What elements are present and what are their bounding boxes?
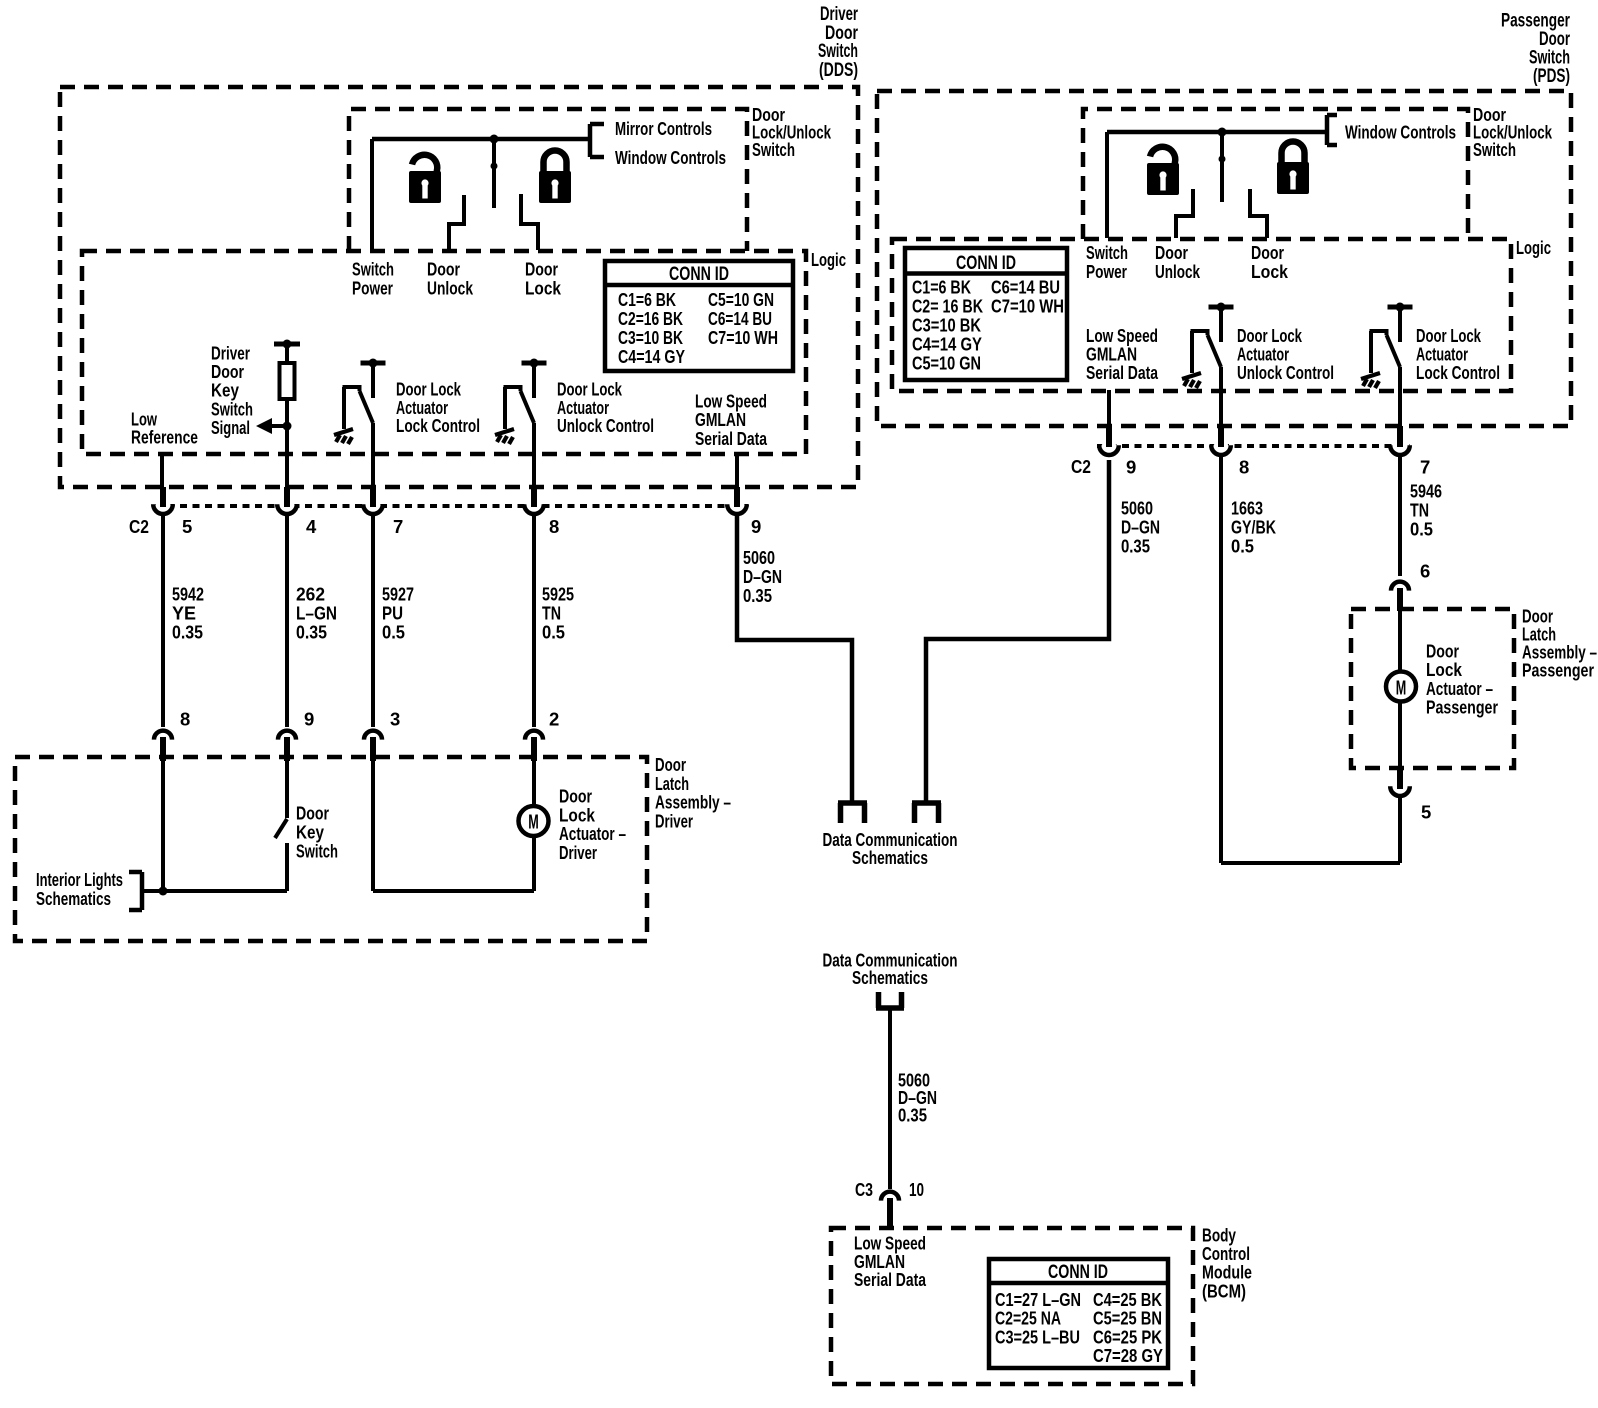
wire passenger unlock control above C2: [1219, 367, 1223, 442]
svg-text:3: 3: [390, 709, 400, 730]
label Door Latch Assembly - Driver: [655, 754, 731, 831]
connector terminal pin 9 (door latch driver): [280, 730, 294, 744]
svg-text:7: 7: [1420, 457, 1430, 478]
wire latch unlock control: [532, 760, 536, 806]
wire 5060 D-GN to BCM: [888, 1009, 892, 1189]
svg-text:9: 9: [1126, 457, 1136, 478]
svg-text:0.35: 0.35: [898, 1105, 927, 1126]
svg-text:D–GN: D–GN: [743, 566, 782, 587]
svg-text:5: 5: [1421, 802, 1431, 823]
wire bottom link to latch passenger: [1221, 861, 1400, 865]
label Low Speed GMLAN Serial Data (passenger): [1086, 325, 1159, 383]
svg-text:0.35: 0.35: [172, 622, 203, 643]
svg-text:Logic: Logic: [811, 249, 846, 270]
svg-text:Lock: Lock: [1251, 261, 1289, 282]
svg-text:0.35: 0.35: [296, 622, 327, 643]
door key switch (driver): [275, 760, 287, 891]
wire passenger lock control above C2: [1398, 367, 1402, 442]
svg-text:8: 8: [1239, 457, 1249, 478]
harness connector dotted line (passenger C2): [1097, 444, 1410, 448]
connector terminal pin 5 (latch passenger): [1392, 781, 1408, 797]
svg-text:C5=10 GN: C5=10 GN: [912, 353, 981, 374]
svg-text:C3=10 BK: C3=10 BK: [618, 327, 683, 348]
svg-text:Serial Data: Serial Data: [854, 1269, 927, 1290]
svg-text:Serial Data: Serial Data: [1086, 362, 1159, 383]
wire unlock control (above C2): [532, 423, 536, 502]
svg-text:(BCM): (BCM): [1202, 1280, 1246, 1301]
passenger door lock/unlock switch inner dashed box (bottom shared with logic box): [1083, 109, 1468, 239]
driver logic dashed box: [82, 251, 806, 454]
wire lock control (above C2): [371, 423, 375, 502]
icon unlocked padlock (driver door unlock): [409, 155, 441, 203]
CONN ID table (BCM): [989, 1259, 1168, 1368]
off-page bracket to Mirror/Window Controls (driver): [590, 124, 604, 157]
junction dot on passenger bus: [1218, 128, 1227, 137]
connector terminal pin 5 C2 driver: [155, 499, 171, 515]
wire label 5060 D-GN 0.35 (BCM): [898, 1070, 937, 1126]
off-page bracket to Window Controls (passenger): [1327, 115, 1337, 145]
svg-text:C1=6 BK: C1=6 BK: [618, 289, 676, 310]
svg-text:CONN ID: CONN ID: [669, 264, 729, 285]
svg-text:C6=14 BU: C6=14 BU: [708, 308, 772, 329]
svg-text:(DDS): (DDS): [819, 60, 858, 81]
switch driver door lock actuator lock control: [334, 359, 386, 445]
svg-text:10: 10: [909, 1179, 924, 1200]
connector terminal pin 3 (door latch driver): [366, 730, 380, 744]
label Data Communication Schematics (upper): [823, 829, 958, 868]
svg-text:7: 7: [393, 516, 403, 537]
svg-text:C7=10 WH: C7=10 WH: [991, 296, 1064, 317]
label Door Lock Actuator - Driver: [559, 786, 626, 863]
resistor (driver door key switch pull-up): [280, 363, 295, 399]
wire below motor driver: [532, 836, 536, 891]
svg-text:Unlock Control: Unlock Control: [557, 415, 654, 436]
svg-text:Passenger: Passenger: [1426, 697, 1498, 718]
svg-text:Driver: Driver: [559, 842, 597, 863]
svg-text:M: M: [1396, 678, 1407, 700]
label Switch Power (passenger): [1086, 242, 1128, 282]
wire column x=534 between connectors: [532, 515, 536, 727]
wire label 5942 YE 0.35: [172, 584, 204, 643]
svg-text:C2: C2: [129, 516, 149, 537]
svg-text:0.5: 0.5: [1410, 519, 1433, 540]
driver door switch (DDS) outer dashed box: [60, 87, 858, 487]
wire passenger GMLAN above C2: [1107, 390, 1111, 442]
svg-text:(PDS): (PDS): [1533, 66, 1570, 87]
off-page bracket data communication (passenger side): [912, 803, 941, 823]
label Door Lock Actuator Lock Control (passenger): [1416, 325, 1500, 383]
svg-text:262: 262: [296, 584, 325, 605]
wire low reference (above C2): [160, 453, 164, 502]
svg-text:1663: 1663: [1231, 498, 1263, 519]
svg-text:TN: TN: [542, 603, 561, 624]
svg-text:Schematics: Schematics: [852, 967, 928, 988]
connector terminal pin 4 C2 driver: [279, 499, 295, 515]
connector terminal pin 7 C2 driver: [365, 499, 381, 515]
junction dot latch driver: [159, 887, 168, 896]
signal arrow (driver door key switch signal): [262, 424, 287, 428]
svg-text:C5=10 GN: C5=10 GN: [708, 289, 774, 310]
wire label 262 L-GN 0.35: [296, 584, 337, 643]
svg-text:Lock: Lock: [525, 278, 562, 299]
label Door Lock Actuator Lock Control (driver): [396, 379, 480, 437]
wire latch passenger below motor: [1398, 701, 1402, 780]
svg-text:YE: YE: [172, 603, 196, 624]
wire passenger switch-power bus: [1107, 130, 1327, 135]
wire driver switch-power bus: [372, 137, 590, 142]
label Door Key Switch: [296, 803, 338, 862]
wire latch low reference: [161, 760, 165, 891]
switch passenger door lock actuator lock control: [1361, 303, 1413, 389]
svg-text:4: 4: [306, 516, 317, 537]
svg-text:Signal: Signal: [211, 417, 250, 438]
wire GMLAN (above C2): [735, 453, 739, 502]
wire driver door-unlock contact hook: [449, 195, 464, 250]
wire label 5060 D-GN 0.35 (driver): [743, 547, 782, 606]
off-page bracket to Interior Lights Schematics: [129, 872, 142, 910]
wire label 5925 TN 0.5: [542, 584, 574, 643]
connector terminal C2 passenger x=1221: [1213, 440, 1229, 456]
svg-text:Switch: Switch: [352, 259, 394, 280]
wire passenger door-lock contact hook: [1250, 189, 1267, 238]
svg-text:C2=16 BK: C2=16 BK: [618, 308, 683, 329]
svg-text:Interior Lights: Interior Lights: [36, 869, 123, 890]
svg-text:C3: C3: [855, 1179, 873, 1200]
svg-text:C2= 16 BK: C2= 16 BK: [912, 296, 983, 317]
svg-text:5927: 5927: [382, 584, 414, 605]
door latch assembly driver dashed box: [15, 757, 647, 941]
wire passenger door-unlock contact hook: [1176, 189, 1193, 238]
svg-text:9: 9: [304, 709, 314, 730]
switch passenger door lock actuator unlock control: [1182, 303, 1234, 389]
label Low Speed GMLAN Serial Data (BCM): [854, 1233, 927, 1291]
svg-text:Door: Door: [1155, 242, 1188, 263]
svg-text:9: 9: [751, 516, 761, 537]
svg-text:8: 8: [549, 516, 559, 537]
svg-text:C3=10 BK: C3=10 BK: [912, 315, 982, 336]
wire key switch signal (above C2): [285, 426, 289, 502]
svg-text:Key: Key: [296, 822, 325, 843]
svg-text:5925: 5925: [542, 584, 574, 605]
svg-text:Passenger: Passenger: [1522, 660, 1594, 681]
label Door Lock Actuator Unlock Control (driver): [557, 379, 654, 437]
connector terminal pin 10 (BCM C3): [883, 1191, 897, 1205]
label Passenger Door Switch (PDS): [1501, 10, 1570, 86]
svg-text:Logic: Logic: [1516, 237, 1551, 258]
svg-text:0.5: 0.5: [1231, 536, 1254, 557]
svg-text:C2: C2: [1071, 456, 1091, 477]
svg-text:2: 2: [549, 709, 559, 730]
wire passenger GMLAN to data communication: [926, 460, 1109, 802]
svg-text:0.35: 0.35: [743, 585, 772, 606]
label Door Lock (driver): [525, 259, 562, 299]
svg-text:5060: 5060: [743, 547, 775, 568]
body control module (BCM) dashed box: [831, 1228, 1193, 1384]
svg-text:CONN ID: CONN ID: [1048, 1262, 1108, 1283]
svg-text:CONN ID: CONN ID: [956, 253, 1016, 274]
svg-text:Window Controls: Window Controls: [1345, 122, 1456, 143]
label Driver Door Switch (DDS): [818, 4, 858, 81]
pivot dot driver rocker: [491, 163, 498, 170]
label Door Lock/Unlock Switch (passenger): [1473, 104, 1553, 160]
svg-text:GY/BK: GY/BK: [1231, 517, 1276, 538]
svg-text:C4=14 GY: C4=14 GY: [912, 334, 983, 355]
svg-text:Door: Door: [1251, 242, 1284, 263]
svg-text:6: 6: [1420, 561, 1430, 582]
wire label 1663 GY/BK 0.5: [1231, 498, 1276, 557]
svg-text:0.35: 0.35: [1121, 536, 1150, 557]
wire latch passenger above motor: [1398, 611, 1402, 673]
svg-text:PU: PU: [382, 603, 403, 624]
svg-text:Switch: Switch: [1473, 139, 1516, 160]
svg-text:Unlock Control: Unlock Control: [1237, 362, 1334, 383]
wire driver door-lock contact hook: [521, 194, 538, 250]
label Driver Door Key Switch Signal: [211, 343, 253, 438]
wire passenger rocker common: [1220, 132, 1224, 202]
svg-text:Window Controls: Window Controls: [615, 147, 726, 168]
driver door lock/unlock switch inner dashed box (bottom shared with logic box): [349, 109, 747, 251]
icon locked padlock (passenger door lock): [1277, 142, 1309, 195]
svg-text:Door: Door: [427, 259, 460, 280]
connector terminal pin 6 (latch passenger): [1393, 581, 1407, 595]
label Interior Lights Schematics: [36, 869, 123, 909]
passenger door switch (PDS) outer dashed box: [877, 91, 1571, 426]
passenger logic dashed box: [892, 239, 1511, 391]
label Body Control Module (BCM): [1202, 1225, 1252, 1302]
svg-text:Lock Control: Lock Control: [396, 415, 480, 436]
svg-text:Reference: Reference: [131, 427, 198, 448]
wire 5946 TN down: [1398, 455, 1402, 577]
label Low Reference: [131, 409, 198, 448]
svg-text:C1=6 BK: C1=6 BK: [912, 277, 971, 298]
svg-text:Door: Door: [525, 259, 558, 280]
svg-text:C6=14 BU: C6=14 BU: [991, 277, 1060, 298]
svg-text:C4=14 GY: C4=14 GY: [618, 346, 686, 367]
connector terminal pin 2 (door latch driver): [527, 730, 541, 744]
connector terminal pin 8 (door latch driver): [156, 730, 170, 744]
svg-text:C7=28 GY: C7=28 GY: [1093, 1345, 1164, 1366]
svg-text:D–GN: D–GN: [1121, 517, 1160, 538]
icon unlocked padlock (passenger door unlock): [1147, 147, 1179, 195]
label Door Lock (passenger): [1251, 242, 1289, 282]
label Data Communication Schematics (lower): [823, 950, 958, 989]
wire latch actuator bottom: [373, 889, 534, 893]
svg-text:Serial Data: Serial Data: [695, 428, 768, 449]
svg-text:M: M: [528, 812, 539, 834]
wire column x=287 between connectors: [285, 515, 289, 727]
svg-text:TN: TN: [1410, 500, 1429, 521]
connector terminal pin 8 C2 driver: [526, 499, 542, 515]
wire 1663 GY/BK down: [1219, 455, 1223, 864]
label Door Lock Actuator - Passenger: [1426, 641, 1498, 718]
svg-text:Door: Door: [296, 803, 329, 824]
wire passenger switch power feed: [1105, 132, 1109, 238]
motor M door lock actuator driver: [519, 806, 549, 836]
pivot dot passenger rocker: [1219, 156, 1226, 163]
svg-text:5: 5: [182, 516, 192, 537]
svg-text:Lock Control: Lock Control: [1416, 362, 1500, 383]
svg-text:C7=10 WH: C7=10 WH: [708, 327, 778, 348]
connector terminal C2 passenger x=1400: [1392, 440, 1408, 456]
wire driver rocker common: [492, 139, 496, 208]
wire driver switch power feed: [370, 139, 374, 250]
svg-text:0.5: 0.5: [542, 622, 565, 643]
wire driver GMLAN to data communication: [737, 515, 852, 803]
svg-text:Power: Power: [1086, 261, 1127, 282]
CONN ID table (driver door switch): [605, 261, 793, 371]
door latch assembly passenger dashed box: [1351, 609, 1514, 768]
connector terminal C2 passenger x=1109: [1101, 440, 1117, 456]
wire label 5060 D-GN 0.35 (passenger): [1121, 498, 1160, 557]
label Door Unlock (passenger): [1155, 242, 1201, 282]
label Switch Power (driver): [352, 259, 394, 299]
junction dot on driver bus: [490, 135, 499, 144]
svg-text:0.5: 0.5: [382, 622, 405, 643]
motor M door lock actuator passenger: [1386, 672, 1416, 702]
wire label 5927 PU 0.5: [382, 584, 414, 643]
wire below pin 5: [1398, 797, 1402, 863]
wire column x=373 between connectors: [371, 515, 375, 727]
label Door Latch Assembly - Passenger: [1522, 606, 1597, 681]
svg-text:C3=25 L–BU: C3=25 L–BU: [995, 1326, 1080, 1347]
switch driver door lock actuator unlock control: [495, 359, 547, 445]
svg-text:Switch: Switch: [752, 139, 795, 160]
label Low Speed GMLAN Serial Data (driver): [695, 391, 768, 449]
svg-text:Mirror Controls: Mirror Controls: [615, 118, 712, 139]
icon locked padlock (driver door lock): [539, 151, 571, 204]
label Door Lock Actuator Unlock Control (passenger): [1237, 325, 1334, 383]
svg-text:Power: Power: [352, 278, 393, 299]
CONN ID table (passenger door switch): [905, 248, 1067, 380]
svg-text:Schematics: Schematics: [36, 888, 111, 909]
label Door Unlock (driver): [427, 259, 474, 299]
svg-text:Schematics: Schematics: [852, 847, 928, 868]
connector terminal pin 9 C2 driver: [729, 499, 745, 515]
label Door Lock/Unlock Switch (driver): [752, 104, 832, 160]
resistor branch: driver door key switch signal: [256, 340, 300, 435]
svg-text:5946: 5946: [1410, 481, 1442, 502]
wire column x=163 between connectors: [161, 515, 165, 727]
svg-text:L–GN: L–GN: [296, 603, 337, 624]
wire latch lock control: [371, 760, 375, 891]
wire to interior lights: [142, 889, 287, 893]
wire label 5946 TN 0.5: [1410, 481, 1442, 540]
svg-text:Unlock: Unlock: [1155, 261, 1201, 282]
svg-text:Driver: Driver: [655, 810, 693, 831]
svg-text:5942: 5942: [172, 584, 204, 605]
harness connector dotted line (driver C2): [155, 504, 748, 508]
svg-text:Switch: Switch: [296, 841, 338, 862]
off-page bracket data communication (driver side): [838, 803, 867, 823]
svg-text:Switch: Switch: [1086, 242, 1128, 263]
off-page bracket from data communication schematics (to BCM): [876, 992, 904, 1008]
svg-text:Unlock: Unlock: [427, 278, 474, 299]
svg-text:8: 8: [180, 709, 190, 730]
svg-text:5060: 5060: [1121, 498, 1153, 519]
